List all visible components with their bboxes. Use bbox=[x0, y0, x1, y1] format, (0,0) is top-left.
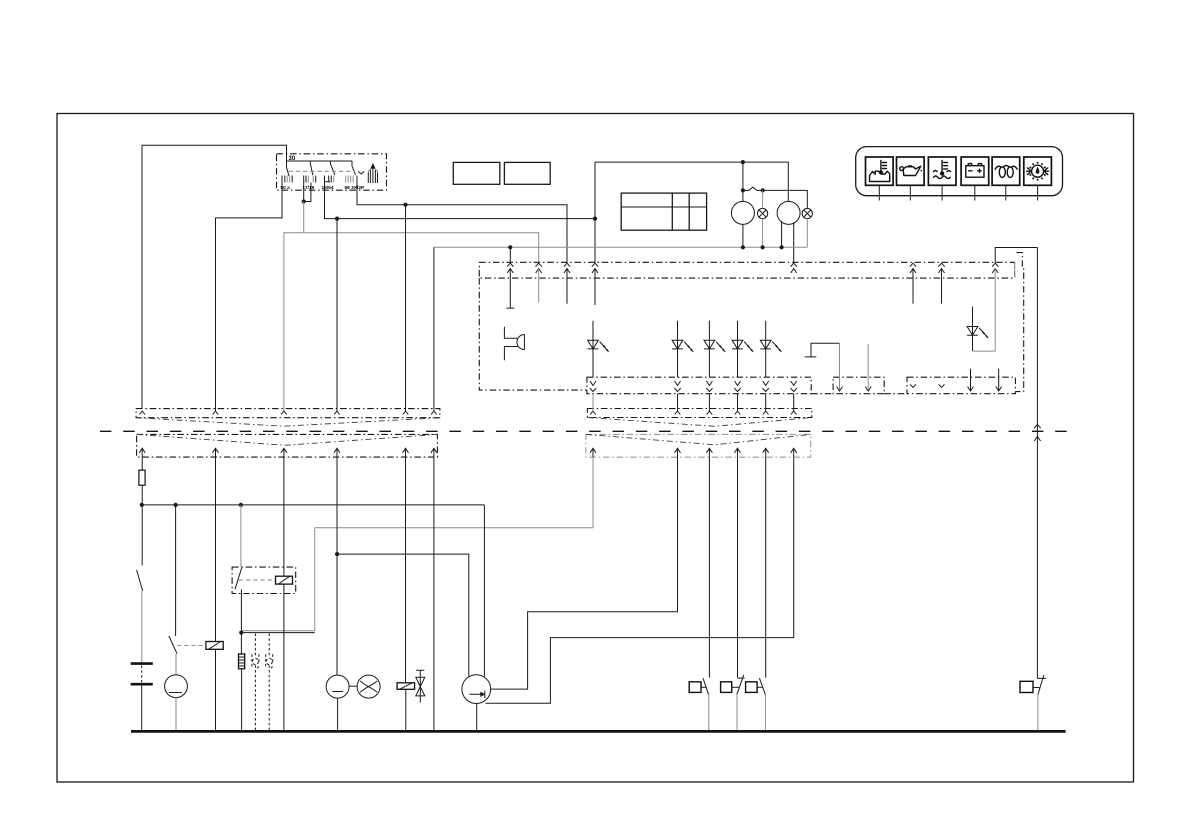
starting relay enclosure bbox=[232, 567, 296, 593]
fan motor (circle with minus) bbox=[326, 675, 349, 698]
top feed wire from junction to tachometer bbox=[595, 162, 788, 201]
junction fan wire with pump branch bbox=[335, 552, 339, 556]
LCD display block of cluster bbox=[621, 193, 706, 230]
wire bus end down to fuel pump right-top terminal bbox=[483, 505, 485, 677]
wire resistor to ground bus bbox=[241, 669, 243, 732]
long right wire down to coolant level switch bbox=[1036, 248, 1038, 679]
cluster pin 4 stub bbox=[594, 269, 596, 306]
wire bus to generator cutoff switch bbox=[175, 505, 177, 636]
terminal 17/19 pin ticks bbox=[306, 176, 316, 183]
grey wire switch to battery bbox=[141, 591, 143, 664]
coolant temperature icon bbox=[934, 161, 951, 179]
speedometer bottom lead bbox=[742, 224, 744, 247]
cluster pin 2 stub bbox=[538, 269, 540, 303]
LED 3 in cluster bbox=[704, 321, 726, 378]
starting relay contact blade bbox=[235, 568, 242, 590]
wire connector pin1 down to fuse bbox=[141, 457, 143, 470]
terminal 58 pin ticks bbox=[346, 176, 354, 183]
junction at speedometer top feed bbox=[741, 160, 745, 164]
svg-text:15/54: 15/54 bbox=[322, 185, 334, 191]
lamp 1 top lead bbox=[762, 190, 764, 208]
ignition-starter switch D enclosure bbox=[277, 154, 387, 190]
switch F1 with actuator box bbox=[689, 678, 709, 731]
right harness connector lower row bbox=[586, 434, 811, 457]
instrument cluster outline right edge bbox=[1015, 253, 1023, 392]
generator cutoff switch blade bbox=[169, 636, 177, 654]
right connector lower row pin arrows bbox=[590, 448, 797, 457]
fan wheel (circle with blades) bbox=[357, 675, 380, 698]
battery icon bbox=[966, 164, 984, 178]
generator C (circle with minus) bbox=[165, 675, 188, 698]
glow plug 2 (dashed) bbox=[266, 634, 273, 732]
wire strip1 pin6 down to fuel pump lower terminal bbox=[486, 394, 794, 704]
tachometer gauge circle bbox=[777, 201, 800, 224]
wire connector pin5 down to solenoid valve bbox=[405, 457, 407, 683]
warning lamp 1 (circle with cross) bbox=[758, 208, 768, 218]
wire connector pin6 to ground bus bbox=[433, 457, 435, 731]
grey return wire from LED 6 to cluster pin 8 bbox=[973, 269, 996, 352]
left harness connector upper row bbox=[136, 409, 440, 418]
lock cylinder arch icon bbox=[368, 163, 377, 183]
wire from terminal 50a down-left to harness connector pin 2 bbox=[216, 190, 283, 411]
thermo fuse hump between gauges bbox=[743, 187, 763, 190]
illumination return bus under gauges bbox=[434, 246, 807, 248]
wire connector pin3 down through relay coil winding bbox=[283, 457, 285, 731]
right harness connector upper row bbox=[587, 409, 811, 418]
wire bus left end down to connector pin 6 bbox=[433, 247, 435, 411]
glow plug 1 (dashed) bbox=[252, 634, 259, 732]
wire strip1 pin1 down through connectors to glow relay circuit bbox=[241, 394, 593, 631]
fuse S (rectangle) bbox=[139, 470, 145, 485]
symbol box diesel preheat / temperature bbox=[1024, 157, 1052, 185]
wire generator to ground bus bbox=[175, 698, 177, 732]
strip 1 bottom pin arrows (out of cluster) bbox=[590, 381, 797, 392]
buzzer symbol in cluster bbox=[504, 327, 524, 360]
border frame of schematic sheet bbox=[57, 114, 1134, 783]
terminal 15/54 pin ticks bbox=[329, 176, 334, 183]
instrument cluster enclosure left and bottom outline bbox=[479, 278, 587, 390]
LED 6 in cluster (right) bbox=[967, 307, 989, 352]
mechanical link switch to relay coil (dashed) bbox=[177, 645, 206, 647]
junction bus with battery branch bbox=[140, 503, 144, 507]
cluster pin 7 stub bbox=[941, 269, 943, 304]
battery A bbox=[131, 664, 153, 685]
cluster pin 1 stub with termination bar bbox=[506, 269, 514, 309]
terminal 19 wire pin bbox=[310, 183, 312, 191]
wire branch down to connector pin 4 bbox=[336, 219, 338, 412]
solenoid valve coil (box with diagonal) bbox=[397, 683, 415, 690]
LED 4 in cluster bbox=[732, 321, 754, 378]
wire from shield stub down into strip 2 bbox=[839, 343, 841, 391]
relay coil on pin wire (box with diagonal) bbox=[206, 642, 223, 650]
junction bus tachometer bbox=[780, 245, 784, 249]
wire solenoid valve to ground bus bbox=[405, 689, 407, 731]
wire from cluster pin 8 up over to right drop wire bbox=[995, 248, 1037, 264]
cluster bottom connector strip 2 bbox=[833, 377, 884, 394]
divider crossing arrow on right drop wire bbox=[1034, 425, 1041, 442]
instrument cluster outline jog at top right bbox=[1014, 262, 1016, 277]
svg-text:58 3X/2P: 58 3X/2P bbox=[345, 185, 366, 191]
stub wires below symbol boxes bbox=[879, 185, 1037, 200]
left harness connector lower row bbox=[137, 434, 438, 457]
cluster bottom outline links between strips bbox=[811, 393, 907, 395]
terminal 50a wire pin bbox=[281, 176, 283, 191]
wire fuse to distribution bus bbox=[141, 485, 143, 565]
left harness slack lines upper bbox=[136, 418, 440, 427]
top strip pin arrows (terminals into cluster) bbox=[507, 263, 998, 273]
junction on 58 wire to connector pin 5 bbox=[403, 203, 407, 207]
fuel pump M (circle with arrow) bbox=[462, 675, 491, 704]
cluster bottom connector strip 3 bbox=[907, 377, 1015, 394]
wire from terminal 58 across to cluster pin bbox=[357, 190, 567, 263]
left harness slack lines lower bbox=[137, 434, 438, 445]
wire relay contact down to glow circuit junction bbox=[240, 589, 242, 654]
symbol box battery charge bbox=[961, 157, 989, 185]
wire fan motor to ground bus bbox=[337, 698, 339, 731]
cluster bottom connector strip 1 bbox=[587, 377, 811, 394]
battery master switch blade bbox=[137, 570, 143, 591]
shield stub with bar inside cluster bbox=[805, 343, 840, 357]
series resistor with stripes bbox=[239, 654, 245, 669]
symbol box K3 oil pressure bbox=[897, 157, 925, 185]
page divider dashed line bbox=[100, 430, 1069, 432]
wire joining terminals 17 and 19 bbox=[304, 190, 311, 201]
strip 3 stub pin arrows bbox=[968, 369, 1002, 391]
junction bus to cluster pin 1 bbox=[508, 245, 512, 249]
switch contact blade to terminal 50a bbox=[287, 161, 290, 176]
positive distribution bus bbox=[142, 504, 485, 506]
lamp 2 bottom lead bbox=[806, 219, 808, 248]
wire connector pin4 down to fan motor bbox=[336, 457, 338, 675]
junction glow circuit bbox=[239, 631, 243, 635]
switch contact blade to terminal 15/54 bbox=[330, 161, 335, 175]
glow plug coil icon bbox=[995, 165, 1017, 177]
terminal 17 wire pin bbox=[303, 176, 305, 191]
wire bus branch down to cluster pin 1 bbox=[509, 247, 511, 263]
wire fuel pump to ground bus bbox=[476, 704, 478, 732]
cluster pin 3 stub bbox=[566, 269, 568, 304]
junction bus speedometer bbox=[741, 245, 745, 249]
left connector upper row pin chevrons bbox=[139, 411, 436, 414]
symbol box K28 oil temperature bbox=[866, 157, 894, 185]
wire junction to grey return bbox=[241, 632, 314, 634]
wire strip1 pin3 down to switch F1 bbox=[708, 394, 710, 678]
switch F3 with actuator box bbox=[746, 678, 766, 731]
junction bus with generator branch bbox=[174, 503, 178, 507]
symbol box K2 coolant temperature bbox=[928, 157, 956, 185]
junction of terminals 17/19 bbox=[302, 199, 306, 203]
right connector upper row pin chevrons bbox=[590, 411, 796, 414]
tachometer bottom-right lead down to cluster bbox=[793, 222, 795, 263]
junction bus lamp1 bbox=[761, 245, 765, 249]
wire strip1 pin2 down to fuel pump right terminal bbox=[491, 394, 678, 689]
vertical feed wire to gauges and cluster pin bbox=[594, 162, 596, 263]
wire bus to starting relay bbox=[240, 505, 242, 567]
switch F2 with actuator box bbox=[721, 675, 745, 732]
speedometer gauge circle bbox=[731, 201, 754, 224]
wire from 17/19 junction down to grey bus bbox=[303, 202, 305, 233]
ignition switch bus bar 30 bbox=[287, 160, 353, 162]
right harness slack lines upper bbox=[587, 418, 811, 427]
terminal 50a pin ticks bbox=[285, 176, 292, 183]
instrument cluster top connector strip bbox=[479, 262, 1014, 278]
wire branch to fuel pump left terminal bbox=[337, 554, 469, 677]
wire strip1 pin4 down to switch F2 bbox=[737, 394, 739, 678]
switch contact blade to terminal 58 bbox=[352, 161, 356, 175]
right harness slack lines lower bbox=[586, 434, 811, 444]
junction left of thermo fuse bbox=[741, 188, 745, 192]
cluster pin 6 stub bbox=[912, 269, 914, 304]
relay plate rectangle 1 bbox=[453, 162, 500, 184]
strip 3 chevron pins bbox=[910, 384, 945, 387]
junction on 15/54 wire to connector pin 4 bbox=[335, 217, 339, 221]
symbol box glow plug indicator bbox=[992, 157, 1020, 185]
relay plate rectangle 2 bbox=[504, 162, 550, 184]
junction bus with relay branch bbox=[239, 503, 243, 507]
svg-text:50 a: 50 a bbox=[281, 185, 291, 191]
starting relay coil (box with diagonal) bbox=[276, 576, 293, 584]
warning lamp symbol panel (rounded box) bbox=[856, 147, 1063, 196]
junction of 15/54 wire with cluster feed wire bbox=[593, 217, 597, 221]
grey wire switch to generator bbox=[175, 654, 177, 675]
coolant level switch F4 with actuator box bbox=[1020, 675, 1046, 731]
wire connector pin2 down through relay coil to ground bbox=[215, 457, 217, 731]
mechanical coupling (dashed) of ignition lock bbox=[289, 170, 355, 172]
wire battery to ground bus bbox=[141, 684, 143, 731]
oil pressure icon (oil can) bbox=[900, 166, 922, 176]
strip 2 pin arrows bbox=[837, 387, 872, 392]
wire strip1 pin5 down to switch F3 bbox=[765, 394, 767, 678]
coupling link motor to fan bbox=[349, 685, 357, 687]
lamp 1 bottom lead bbox=[762, 219, 764, 248]
detent notch of lock actuator bbox=[358, 171, 364, 174]
starting relay mechanical link (dashed) bbox=[239, 579, 276, 581]
LED 1 in cluster bbox=[588, 321, 610, 378]
wire feed from ignition lock terminal 30 to left harness (top-left long wire) bbox=[142, 145, 287, 408]
left connector lower row pin arrows bbox=[139, 448, 437, 457]
svg-text:17/19: 17/19 bbox=[302, 185, 314, 191]
wire from terminal 15/54 across to gauges feed bbox=[325, 190, 596, 218]
grey bus wire from connector pin 3 to instrument cluster pin bbox=[284, 233, 539, 411]
LED 5 in cluster bbox=[760, 321, 782, 378]
junction right of thermo fuse bbox=[761, 188, 765, 192]
switch contact blade to terminal 17/19 bbox=[310, 161, 313, 175]
warning lamp 2 (circle with cross) bbox=[802, 208, 812, 218]
wire from fuse junction to lamp 2 bbox=[763, 190, 808, 208]
LED 2 in cluster bbox=[672, 321, 694, 378]
ground bus bar bbox=[131, 730, 1066, 733]
stub wire into strip 2 pin 2 bbox=[867, 344, 869, 392]
tachometer bottom-left lead bbox=[781, 222, 783, 247]
wire speedometer feed drop bbox=[742, 162, 744, 201]
wire branch down to connector pin 5 bbox=[405, 205, 407, 411]
terminal 58 wire pin bbox=[356, 176, 358, 191]
terminal 15/54 wire pin with foot bbox=[325, 176, 331, 191]
valve body (double triangle) bbox=[416, 670, 425, 702]
oil temperature icon bbox=[870, 161, 890, 182]
gear with droplet and arrows icon bbox=[1027, 162, 1049, 181]
